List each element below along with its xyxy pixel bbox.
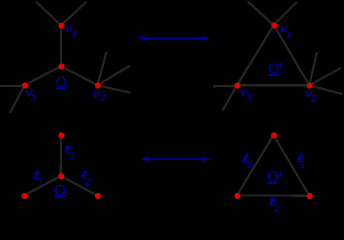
- wire stub v1 up-right: [61, 2, 87, 26]
- svg-text:2: 2: [86, 178, 91, 188]
- label v2 (top-right triangle): [305, 86, 316, 104]
- wire stub v3 left: [0, 85, 25, 87]
- wire stub v1' up-right: [274, 2, 297, 25]
- svg-text:1: 1: [300, 160, 305, 170]
- node top (bottom-left star): [58, 132, 64, 138]
- wire stub v3' down-left: [222, 85, 237, 111]
- svg-text:2: 2: [100, 94, 105, 104]
- label t1-prime (bottom-right triangle): [297, 151, 306, 170]
- wire stub v1' up-left: [248, 2, 274, 26]
- label v1 (top-right triangle): [280, 22, 291, 42]
- wire center-left (bottom-left star): [24, 176, 61, 196]
- svg-text:2: 2: [311, 94, 316, 104]
- node v1 (top-right triangle): [271, 22, 277, 28]
- label Omega-prime (bottom-right triangle): [267, 168, 282, 189]
- node center (bottom-left star): [58, 173, 64, 179]
- wire stub v3 down-left: [10, 85, 25, 113]
- svg-text:1: 1: [72, 30, 77, 40]
- wire v1-v2 (top-right triangle): [274, 25, 310, 85]
- wire v1-v3 (top-right triangle): [237, 25, 274, 85]
- node v1 (top-left star): [58, 23, 64, 29]
- label t2 (bottom-left star): [81, 168, 91, 189]
- svg-text:3: 3: [246, 160, 252, 170]
- node top (bottom-right triangle): [271, 132, 277, 138]
- label v1 (top-left star): [65, 21, 77, 40]
- wire v1-Omega (top-left star): [60, 25, 62, 66]
- svg-text:2: 2: [274, 205, 279, 213]
- svg-text:1: 1: [39, 178, 44, 188]
- node left (bottom-left star): [21, 193, 27, 199]
- svg-text:v: v: [92, 86, 100, 100]
- wire top-br (bottom-right triangle): [274, 135, 310, 196]
- node Omega center (top-left star): [58, 64, 64, 70]
- node br (bottom-right triangle): [307, 193, 313, 199]
- wire center-right (bottom-left star): [61, 176, 98, 196]
- wire Omega-v2 (top-left star): [61, 66, 97, 85]
- arrow top double-headed: [137, 35, 209, 41]
- label v3 (top-left star): [25, 86, 36, 104]
- label v2 (top-left star): [92, 86, 105, 103]
- svg-text:Ω: Ω: [56, 74, 67, 94]
- label t3 (bottom-left star): [64, 142, 75, 162]
- svg-text:3: 3: [246, 93, 252, 103]
- wire stub v2 up: [97, 52, 106, 86]
- svg-text:Ω: Ω: [268, 61, 279, 81]
- wire stub v2' right: [309, 85, 342, 94]
- wire stub v2' up-right: [309, 68, 341, 85]
- node right (bottom-left star): [95, 193, 101, 199]
- wire top-center (bottom-left star): [60, 135, 62, 176]
- label Omega-prime (top-right triangle): [268, 61, 281, 81]
- node v3 (top-right triangle): [234, 83, 240, 89]
- label t3-prime (bottom-right triangle): [241, 152, 252, 170]
- svg-text:3: 3: [30, 94, 36, 104]
- node v2 (top-right triangle): [307, 83, 313, 89]
- label t2-prime (bottom-right triangle): [269, 194, 280, 214]
- node v3 (top-left star): [22, 83, 28, 89]
- wire stub v1 up-left: [36, 2, 61, 26]
- node bl (bottom-right triangle): [234, 193, 240, 199]
- wire v3-v2 (top-right triangle): [237, 84, 309, 86]
- svg-text:Ω: Ω: [267, 168, 279, 189]
- svg-text:3: 3: [69, 152, 75, 162]
- wire stub v2 up-right: [97, 66, 129, 85]
- arrow bottom double-headed: [141, 156, 210, 162]
- wire bl-br (bottom-right triangle): [237, 194, 309, 196]
- label t1 (bottom-left star): [33, 168, 44, 187]
- wire stub v2 right: [97, 85, 130, 93]
- label v3 (top-right triangle): [240, 85, 252, 104]
- svg-text:1: 1: [286, 31, 291, 41]
- wire stub v3' left: [213, 85, 237, 87]
- wire Omega-v3 (top-left star): [25, 66, 61, 85]
- node v2 (top-left star): [95, 83, 101, 89]
- svg-text:Ω: Ω: [54, 182, 67, 203]
- wire stub v2' up: [309, 52, 317, 85]
- wire top-bl (bottom-right triangle): [237, 135, 274, 196]
